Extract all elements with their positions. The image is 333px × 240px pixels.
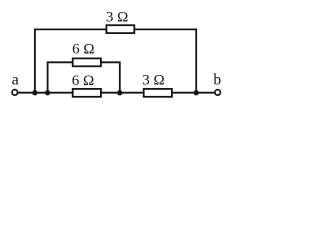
svg-text:3 Ω: 3 Ω (106, 9, 128, 25)
svg-text:3 Ω: 3 Ω (142, 73, 164, 89)
svg-text:a: a (12, 71, 19, 89)
svg-text:6 Ω: 6 Ω (72, 73, 94, 89)
svg-text:b: b (213, 71, 221, 88)
svg-text:6 Ω: 6 Ω (72, 42, 94, 58)
